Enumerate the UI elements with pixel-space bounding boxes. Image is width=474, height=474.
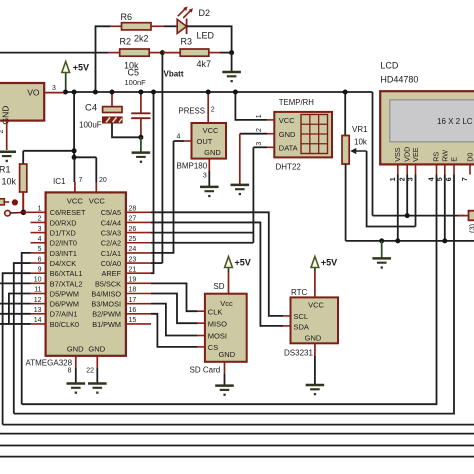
ground (LCD) bbox=[372, 241, 391, 269]
svg-text:D3/INT1: D3/INT1 bbox=[50, 249, 77, 258]
ground (RTC) bbox=[306, 385, 325, 395]
label Vbatt bbox=[164, 70, 184, 79]
svg-text:DATA: DATA bbox=[279, 144, 298, 153]
svg-text:VR1: VR1 bbox=[352, 125, 368, 134]
wire LCD RW to gnd line bbox=[444, 175, 446, 241]
sensor U3 BMP180 body bbox=[192, 123, 227, 159]
svg-text:8: 8 bbox=[68, 368, 72, 375]
wire DHT22 VCC pin 1 to rail bbox=[235, 92, 274, 120]
svg-text:23: 23 bbox=[129, 256, 137, 263]
svg-text:2: 2 bbox=[38, 216, 42, 223]
svg-text:B0/CLK0: B0/CLK0 bbox=[50, 320, 79, 329]
label pin 7 bbox=[79, 177, 83, 184]
svg-text:16: 16 bbox=[129, 307, 137, 314]
svg-text:DHT22: DHT22 bbox=[276, 163, 302, 172]
svg-text:C3/A3: C3/A3 bbox=[101, 229, 121, 238]
svg-text:+5V: +5V bbox=[235, 257, 251, 267]
svg-text:3: 3 bbox=[203, 172, 207, 179]
wire pin 17 MOSI to SD MOSI bbox=[151, 304, 198, 336]
power +5V (main rail) bbox=[62, 62, 89, 93]
svg-text:D0: D0 bbox=[466, 153, 474, 162]
svg-text:VCC: VCC bbox=[279, 116, 295, 125]
wire to IC pin 7 bbox=[73, 157, 76, 192]
node VDD junction bbox=[405, 213, 410, 218]
svg-text:MOSI: MOSI bbox=[208, 332, 227, 341]
ground (regulator) bbox=[0, 152, 16, 162]
svg-text:B6/XTAL1: B6/XTAL1 bbox=[50, 269, 83, 278]
svg-text:2: 2 bbox=[211, 106, 215, 113]
ground (IC1 pin 8) bbox=[67, 384, 86, 394]
svg-text:VCC: VCC bbox=[89, 196, 106, 205]
node VCC feed junction bbox=[72, 155, 77, 160]
wire pin 10 B7/XTAL2 (exits left) bbox=[0, 282, 31, 284]
wire LCD VDD to +5V line bbox=[406, 175, 408, 216]
wire pin 13 D7/AIN1 (exits left) bbox=[0, 313, 31, 315]
svg-text:2k2: 2k2 bbox=[134, 34, 149, 44]
wire pin 9 B6/XTAL1 to bus C bbox=[3, 273, 31, 424]
wire pin 28 C5/A5 to RTC SCL bbox=[151, 212, 283, 316]
svg-text:CS: CS bbox=[208, 343, 218, 352]
power +5V (SD card) bbox=[225, 257, 251, 294]
wire +5V line to connector bbox=[373, 215, 465, 217]
wire bus C bbox=[3, 424, 474, 426]
wire IC1 pin 8 to ground bbox=[68, 356, 76, 383]
node C4/C5 ground junction bbox=[138, 135, 143, 140]
wire +5V rail bbox=[66, 91, 373, 93]
wire battery feed to R2 (exits left edge) bbox=[0, 52, 108, 54]
wire DHT22 DATA drop bbox=[252, 147, 254, 242]
svg-text:1: 1 bbox=[38, 206, 42, 213]
wire to IC pin 20 bbox=[95, 157, 97, 192]
wire BMP180 VCC pin 2 to rail bbox=[208, 92, 215, 123]
svg-text:11: 11 bbox=[34, 287, 41, 294]
switch SW1 (reset button) bbox=[0, 199, 23, 216]
svg-text:(3): (3) bbox=[468, 223, 474, 233]
node C5 bbox=[138, 90, 143, 95]
wire R3 to LED cathode node bbox=[220, 52, 232, 54]
svg-text:3: 3 bbox=[38, 226, 42, 233]
wire junction down to ground bbox=[231, 53, 233, 72]
svg-text:2: 2 bbox=[399, 177, 406, 181]
label PRESS bbox=[179, 107, 205, 116]
sensor U4 DHT22 body bbox=[274, 112, 332, 157]
svg-text:12: 12 bbox=[34, 297, 42, 304]
svg-text:5: 5 bbox=[437, 177, 444, 181]
svg-text:R1: R1 bbox=[0, 165, 11, 175]
svg-text:10k: 10k bbox=[1, 177, 16, 187]
svg-text:2: 2 bbox=[0, 130, 5, 134]
node DHT VCC bbox=[233, 90, 238, 95]
wire pin 25 C2/A2 bbox=[151, 242, 253, 244]
LED D2 bbox=[177, 6, 214, 40]
wire pin 6 D4/XCK to bus B bbox=[14, 263, 31, 414]
svg-text:C2/A2: C2/A2 bbox=[101, 239, 121, 248]
wire pin 23 C0/A0 to Vbatt bbox=[151, 262, 162, 264]
node reset junction bbox=[21, 210, 27, 216]
label SD Card bbox=[190, 365, 221, 374]
svg-text:SCL: SCL bbox=[294, 312, 309, 321]
node R6 branch bbox=[93, 90, 98, 95]
label HD44780 bbox=[380, 74, 418, 84]
svg-text:6: 6 bbox=[38, 256, 42, 263]
svg-text:PRESS: PRESS bbox=[179, 107, 205, 116]
wire IC1 pin 22 to ground bbox=[86, 356, 97, 383]
wire DHT22 GND pin 2 to ground bbox=[240, 128, 274, 184]
svg-text:7: 7 bbox=[462, 177, 469, 181]
svg-text:R3: R3 bbox=[181, 37, 193, 47]
svg-text:16 X 2 LC: 16 X 2 LC bbox=[437, 117, 473, 126]
svg-text:VEE: VEE bbox=[411, 147, 420, 162]
svg-text:10: 10 bbox=[34, 277, 42, 284]
svg-text:GND: GND bbox=[204, 148, 221, 157]
wire bus F bbox=[0, 456, 474, 458]
IC1 left pin stubs and numbers bbox=[31, 206, 46, 325]
svg-text:D5/PWM: D5/PWM bbox=[50, 289, 79, 298]
op-amp: IC U1 ATMEGA328 body bbox=[46, 192, 126, 355]
svg-text:AREF: AREF bbox=[102, 269, 122, 278]
node LED/R3 junction bbox=[229, 50, 234, 55]
node VCC drop bbox=[72, 90, 77, 95]
svg-text:LCD: LCD bbox=[380, 61, 399, 71]
node AREF branch bbox=[151, 90, 156, 95]
node R1 feed junction bbox=[72, 148, 77, 153]
svg-text:+5V: +5V bbox=[73, 62, 89, 72]
svg-text:IC1: IC1 bbox=[53, 177, 66, 186]
module RTC DS3231 body bbox=[291, 297, 339, 343]
node VR1 bbox=[343, 90, 348, 95]
svg-text:1: 1 bbox=[390, 177, 397, 181]
wire regulator GND pin 2 down bbox=[0, 121, 7, 150]
svg-text:B5/SCK: B5/SCK bbox=[95, 279, 121, 288]
wire DHT22 DATA pin 3 bbox=[253, 142, 274, 148]
wire BMP180 OUT pin 4 bbox=[174, 133, 192, 141]
svg-text:19: 19 bbox=[129, 277, 137, 284]
svg-text:ATMEGA328: ATMEGA328 bbox=[26, 358, 73, 367]
label DS3231 bbox=[284, 349, 313, 358]
svg-text:DS3231: DS3231 bbox=[284, 349, 313, 358]
svg-text:OUT: OUT bbox=[197, 137, 213, 146]
svg-text:5: 5 bbox=[38, 246, 42, 253]
node gnd stem junction bbox=[379, 238, 384, 243]
svg-text:B7/XTAL2: B7/XTAL2 bbox=[50, 279, 83, 288]
svg-text:3: 3 bbox=[408, 177, 415, 181]
svg-text:6: 6 bbox=[446, 177, 453, 181]
svg-text:2: 2 bbox=[256, 128, 263, 132]
svg-text:10k: 10k bbox=[354, 137, 368, 146]
ground (C4/C5) bbox=[132, 137, 151, 163]
svg-text:VCC: VCC bbox=[308, 301, 324, 310]
node +5V arrow bbox=[63, 90, 68, 95]
svg-text:18: 18 bbox=[129, 287, 137, 294]
wire +5V rail to R1 and IC VCC pins bbox=[23, 92, 96, 157]
wire RTC GND to ground bbox=[314, 343, 316, 384]
svg-text:GND: GND bbox=[88, 344, 105, 353]
svg-text:B4/MISO: B4/MISO bbox=[91, 289, 121, 298]
wire R2-R3 bbox=[162, 52, 180, 54]
svg-text:D2: D2 bbox=[199, 8, 211, 18]
svg-text:100uF: 100uF bbox=[79, 121, 102, 130]
wire SD GND to ground bbox=[224, 362, 226, 385]
resistor R2 bbox=[108, 36, 162, 70]
wire LCD ground line bbox=[346, 240, 474, 242]
svg-text:25: 25 bbox=[129, 236, 137, 243]
wire BMP180 GND pin 3 bbox=[203, 159, 209, 186]
svg-text:D7/AIN1: D7/AIN1 bbox=[50, 310, 78, 319]
svg-text:C5: C5 bbox=[128, 68, 140, 78]
label IC1 bbox=[53, 177, 66, 186]
svg-text:17: 17 bbox=[129, 297, 137, 304]
svg-text:GND: GND bbox=[1, 106, 11, 125]
wire R6 to LED bbox=[164, 25, 177, 27]
svg-text:R2: R2 bbox=[120, 36, 132, 46]
wire pin 19 SCK to SD CLK bbox=[151, 283, 198, 311]
SD card pin stubs bbox=[198, 311, 205, 347]
wire bus D bbox=[0, 433, 474, 435]
svg-text:TEMP/RH: TEMP/RH bbox=[279, 98, 314, 107]
svg-text:3: 3 bbox=[52, 85, 56, 92]
svg-text:27: 27 bbox=[129, 216, 137, 223]
label DHT22 bbox=[276, 163, 302, 172]
ground (DHT22) bbox=[231, 185, 250, 195]
label LCD bbox=[380, 61, 399, 71]
wire bus E bbox=[0, 445, 474, 447]
node RW junction bbox=[442, 238, 447, 243]
label SD bbox=[213, 282, 224, 291]
svg-text:C4/A4: C4/A4 bbox=[101, 218, 121, 227]
wire bus B (E line) bbox=[14, 175, 454, 414]
capacitor C4 (100uF electrolytic) bbox=[79, 92, 141, 137]
svg-text:4: 4 bbox=[429, 177, 436, 181]
RTC SDA pin stub bbox=[283, 325, 291, 327]
ground (BMP180) bbox=[200, 187, 219, 197]
svg-text:4k7: 4k7 bbox=[197, 59, 212, 69]
wire R6 feed from +5V rail bbox=[96, 26, 111, 92]
capacitor C5 (100nF) bbox=[125, 68, 151, 138]
svg-text:D2/INT0: D2/INT0 bbox=[50, 239, 77, 248]
wire pin 11 D5/PWM bbox=[9, 294, 31, 324]
svg-text:4: 4 bbox=[177, 133, 181, 140]
svg-text:7: 7 bbox=[79, 177, 83, 184]
svg-text:100nF: 100nF bbox=[125, 78, 147, 87]
svg-text:+5V: +5V bbox=[321, 257, 337, 267]
svg-text:MISO: MISO bbox=[208, 319, 227, 328]
wire regulator VO pin 3 to +5V rail bbox=[44, 85, 65, 92]
svg-text:D0/RXD: D0/RXD bbox=[50, 218, 77, 227]
wire LCD VSS to gnd line bbox=[397, 175, 399, 241]
wire pin 5 D3/INT1 to bus A bbox=[22, 253, 31, 404]
IC1 right pin stubs and numbers bbox=[126, 206, 151, 325]
label ATMEGA328 bbox=[26, 358, 73, 367]
wire +5V rail drop to LCD VDD bbox=[372, 92, 374, 216]
svg-text:LED: LED bbox=[197, 31, 215, 41]
resistor R3 bbox=[180, 37, 220, 70]
svg-text:SD Card: SD Card bbox=[190, 365, 221, 374]
wire pin 27 C4/A4 to RTC SDA bbox=[151, 222, 283, 325]
svg-text:21: 21 bbox=[129, 266, 137, 273]
svg-text:24: 24 bbox=[129, 246, 137, 253]
svg-text:RTC: RTC bbox=[291, 288, 308, 297]
RTC SCL pin stub bbox=[283, 315, 291, 317]
wire VR1 wiper to LCD VEE bbox=[367, 151, 416, 227]
svg-text:GND: GND bbox=[279, 130, 296, 139]
wire LCD VEE down bbox=[415, 175, 417, 227]
svg-text:SD: SD bbox=[213, 282, 224, 291]
wire LED cathode to ground bbox=[187, 26, 232, 52]
svg-text:VDD: VDD bbox=[402, 147, 411, 162]
wire Vbatt sense line to IC pin 23 bbox=[161, 53, 163, 264]
svg-text:GND: GND bbox=[218, 350, 235, 359]
svg-text:9: 9 bbox=[38, 266, 42, 273]
wire pin 12 D6/PWM (exits left) bbox=[0, 303, 31, 305]
svg-text:VCC: VCC bbox=[67, 196, 84, 205]
label BMP180 bbox=[177, 161, 208, 170]
svg-text:C0/A0: C0/A0 bbox=[101, 259, 121, 268]
svg-text:3: 3 bbox=[256, 142, 263, 146]
svg-text:13: 13 bbox=[34, 307, 42, 314]
svg-text:14: 14 bbox=[34, 317, 42, 324]
wire pin 24 C1/A1 to BMP180 OUT bbox=[151, 141, 174, 253]
node C4 bbox=[110, 90, 115, 95]
node Vbatt junction bbox=[160, 50, 165, 55]
svg-text:C1/A1: C1/A1 bbox=[101, 249, 121, 258]
svg-text:20: 20 bbox=[99, 177, 107, 184]
svg-text:CLK: CLK bbox=[208, 307, 223, 316]
svg-text:C5/A5: C5/A5 bbox=[101, 208, 121, 217]
svg-text:D4/XCK: D4/XCK bbox=[50, 259, 76, 268]
svg-text:1: 1 bbox=[256, 114, 263, 118]
power +5V (RTC) bbox=[311, 257, 337, 298]
resistor R6 bbox=[110, 12, 164, 43]
svg-text:VCC: VCC bbox=[203, 126, 219, 135]
ground (SD card) bbox=[215, 386, 234, 396]
voltage regulator U2 (7805, cut off at left edge) bbox=[0, 83, 44, 124]
svg-text:BMP180: BMP180 bbox=[177, 161, 208, 170]
svg-text:C6/RESET: C6/RESET bbox=[50, 208, 86, 217]
svg-text:4: 4 bbox=[38, 236, 42, 243]
svg-text:15: 15 bbox=[129, 317, 137, 324]
wire pin 16 B2/PWM to SD CS bbox=[151, 314, 198, 347]
svg-text:D6/PWM: D6/PWM bbox=[50, 300, 79, 309]
wire pin1 reset to switch bbox=[23, 211, 30, 213]
wire pin 21 AREF to +5V rail bbox=[151, 92, 154, 273]
svg-text:RS: RS bbox=[431, 152, 440, 162]
svg-text:HD44780: HD44780 bbox=[380, 74, 418, 84]
svg-text:VO: VO bbox=[27, 88, 40, 98]
svg-text:VSS: VSS bbox=[393, 147, 402, 162]
svg-text:26: 26 bbox=[129, 226, 137, 233]
svg-text:R6: R6 bbox=[121, 12, 133, 22]
svg-text:B2/PWM: B2/PWM bbox=[92, 310, 121, 319]
svg-text:E: E bbox=[449, 157, 458, 162]
wire pin 14 B0/CLK0 (exits left) bbox=[0, 323, 31, 325]
label TEMP/RH bbox=[279, 98, 314, 107]
module SD Card body bbox=[205, 294, 247, 362]
svg-text:B1/PWM: B1/PWM bbox=[92, 320, 121, 329]
node VSS junction bbox=[395, 238, 400, 243]
wire pin 26 C3/A3 to DHT22 data line bbox=[151, 232, 253, 234]
svg-text:RW: RW bbox=[440, 150, 449, 162]
svg-text:B3/MOSI: B3/MOSI bbox=[91, 300, 121, 309]
resistor R1 10k bbox=[0, 151, 27, 213]
ground (IC1 pin 22) bbox=[88, 384, 107, 394]
svg-text:22: 22 bbox=[86, 368, 94, 375]
wire bus A (RS line) bbox=[22, 175, 437, 405]
svg-text:SDA: SDA bbox=[294, 323, 309, 332]
ground (LED/R3) bbox=[222, 72, 241, 82]
label pin 20 bbox=[99, 177, 107, 184]
svg-text:D1/TXD: D1/TXD bbox=[50, 229, 76, 238]
wire pin 18 MISO to SD MISO bbox=[151, 294, 198, 324]
potentiometer VR1 10k bbox=[342, 125, 368, 241]
wire rail to VR1 bbox=[344, 92, 346, 136]
svg-text:GND: GND bbox=[67, 344, 84, 353]
svg-text:Vbatt: Vbatt bbox=[164, 70, 184, 79]
svg-text:GND: GND bbox=[305, 334, 322, 343]
display LCD1 HD44780 16x2 body bbox=[380, 91, 474, 164]
node BMP VCC bbox=[206, 90, 211, 95]
LCD pin stubs and numbers bbox=[390, 164, 470, 181]
label RTC bbox=[291, 288, 308, 297]
svg-text:C4: C4 bbox=[85, 102, 97, 113]
connector J1 (right edge) bbox=[458, 211, 474, 233]
svg-text:28: 28 bbox=[129, 206, 137, 213]
